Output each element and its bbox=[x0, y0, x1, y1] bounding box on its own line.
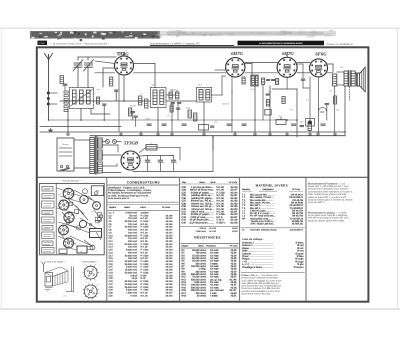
svg-text:0,5: 0,5 bbox=[306, 99, 309, 102]
svg-text:30.000 ohms750 ohms15.000 ohms: 30.000 ohms750 ohms15.000 ohms50.000 ohm… bbox=[191, 249, 207, 298]
part numbers bbox=[58, 189, 100, 253]
wire output transformer links bbox=[335, 72, 357, 132]
wire 6A8G top cap bbox=[117, 53, 124, 57]
resistor diode load bbox=[282, 97, 285, 104]
svg-text:Branchement de l’antenne. —: Branchement de l’antenne. — Lesprises AN… bbox=[307, 182, 353, 204]
svg-text:Puissance: Puissance bbox=[206, 245, 216, 248]
switch bank contacts bbox=[60, 76, 68, 112]
paper edge right bbox=[397, 28, 399, 309]
svg-text:— Avant, en coupe —: — Avant, en coupe — bbox=[43, 260, 67, 263]
svg-text:Prises « P.U. ». — Ces prises: Prises « P.U. ». — Ces prises sontprévue… bbox=[242, 274, 282, 295]
tube 6A8G bbox=[115, 52, 134, 76]
antenna bbox=[45, 54, 53, 60]
svg-text:8: 8 bbox=[151, 162, 152, 165]
svg-text:27: 27 bbox=[59, 199, 61, 202]
svg-text:5Y3GB: 5Y3GB bbox=[124, 140, 138, 146]
header: publication black bar bbox=[238, 41, 325, 46]
ground symbols along bus bbox=[66, 132, 336, 135]
wire 6H7G grid/plate bbox=[215, 64, 252, 76]
wire antenna lead bbox=[48, 60, 50, 121]
svg-text:DR 45.ML/1DR 45.BML/1DR 45.JWD: DR 45.ML/1DR 45.BML/1DR 45.JWDR 45.FA/BD… bbox=[289, 194, 304, 226]
svg-text:Nº Code: Nº Code bbox=[229, 181, 238, 184]
wire 6H7G cathode to bus bbox=[231, 77, 233, 133]
node antenna terminals A1 A2 T bbox=[47, 92, 57, 106]
svg-text:6: 6 bbox=[96, 249, 97, 252]
svg-text:0,1: 0,1 bbox=[279, 115, 282, 118]
column divider B/C bbox=[179, 177, 181, 301]
resistor osc feedback bbox=[129, 108, 132, 116]
wire 6A8G grid bbox=[95, 61, 115, 87]
svg-text:Croquis 14. SCHEMELS: Croquis 14. SCHEMELS bbox=[327, 43, 353, 46]
resistor 6F6G cathode bbox=[300, 77, 311, 132]
tube 6Q7G bbox=[277, 51, 297, 77]
svg-text:5000: 5000 bbox=[186, 107, 190, 110]
misc small parts clutter bbox=[66, 189, 103, 250]
svg-text:31: 31 bbox=[70, 194, 72, 197]
transformer power T bbox=[90, 137, 103, 175]
svg-text:38: 38 bbox=[92, 210, 94, 213]
socket V2 underside bbox=[59, 200, 69, 210]
rotary wafer 2 bbox=[81, 281, 101, 303]
components detector row (R,C,L) bbox=[242, 75, 279, 86]
svg-text:Code du câblage :: Code du câblage : bbox=[242, 238, 264, 241]
svg-text:l’ensemble, s/châssis, 68 pds: l’ensemble, s/châssis, 68 pds bbox=[250, 229, 277, 232]
svg-text:63.3863.38: 63.3863.38 bbox=[232, 227, 238, 233]
svg-text:25: 25 bbox=[110, 78, 112, 81]
wire 6F6G screen vertical bbox=[318, 77, 320, 132]
wire 6A8G cathode to bus bbox=[118, 74, 120, 132]
svg-text:50: 50 bbox=[231, 91, 233, 94]
svg-text:Bloc accord 450............Blo: Bloc accord 450............Bloc oscillat… bbox=[250, 194, 276, 226]
wire HT line bbox=[157, 147, 180, 160]
capacitor C screen bbox=[115, 90, 118, 101]
capacitor AVC bbox=[177, 107, 180, 109]
svg-text:MF2: MF2 bbox=[198, 84, 202, 87]
svg-text:Antennes 1 ...................: Antennes 1 .............................… bbox=[242, 241, 274, 268]
svg-text:8: 8 bbox=[164, 162, 165, 165]
svg-text:0,5 M: 0,5 M bbox=[250, 88, 255, 91]
svg-text:0,1: 0,1 bbox=[140, 93, 143, 96]
wire right return vertical bbox=[344, 86, 346, 136]
transformer output bbox=[344, 71, 355, 87]
svg-text:470: 470 bbox=[214, 121, 217, 124]
column divider C/D bbox=[239, 177, 241, 301]
svg-text:Pot.: Pot. bbox=[290, 109, 294, 112]
ground antenna circuit bbox=[50, 129, 52, 131]
svg-text:Valeur: Valeur bbox=[124, 206, 130, 209]
svg-text:Désignation: Désignation bbox=[263, 188, 275, 191]
resistor R cathode bbox=[145, 99, 148, 108]
resistor cluster below MF2 bbox=[188, 110, 214, 130]
svg-text:H.P.: H.P. bbox=[329, 90, 333, 93]
wire MF2 leads bbox=[204, 76, 226, 132]
svg-text:Superhétérodyne « CHAREL », Ma: Superhétérodyne « CHAREL », Majestic 475 bbox=[150, 42, 200, 45]
choke part bbox=[77, 246, 87, 253]
wire heater bus bbox=[95, 72, 333, 74]
coil block L1 L2 L3 (accord/oscillateur) bbox=[70, 88, 94, 109]
column divider A/B bbox=[106, 177, 108, 301]
svg-text:35: 35 bbox=[58, 193, 60, 196]
wire 6A8G cathode bbox=[123, 75, 125, 101]
svg-text:Repère: Repère bbox=[109, 206, 117, 209]
coil excitation field bbox=[333, 74, 337, 86]
svg-text:LA DOCUMENTATION DU RADIOMAN-R: LA DOCUMENTATION DU RADIOMAN-RADIO bbox=[259, 42, 303, 45]
svg-text:Lab.B: Lab.B bbox=[140, 206, 146, 209]
svg-text:e4 n 243 Tf 6A8G GH7 G2 a 6F 0: e4 n 243 Tf 6A8G GH7 G2 a 6F 0 G 14 43 bbox=[168, 33, 221, 37]
svg-text:Exc.: Exc. bbox=[340, 66, 344, 69]
resistor R osc grid bbox=[139, 96, 142, 105]
paper edge top bbox=[0, 27, 400, 29]
svg-text:— Vue de dessous —: — Vue de dessous — bbox=[59, 180, 83, 183]
resistor R ant coupling bbox=[97, 97, 100, 104]
svg-text:Rep.: Rep. bbox=[182, 181, 187, 184]
wire MF1 secondary bbox=[158, 95, 176, 132]
resistor cluster after MF1 bbox=[169, 90, 181, 132]
wire 6Q7G plate coupling bbox=[297, 64, 309, 88]
svg-text:(Cat.43.BMT/2: (Cat.43.BMT/2 bbox=[290, 229, 304, 232]
resistor R screen 6A8G bbox=[110, 77, 113, 86]
svg-text:Valeur: Valeur bbox=[199, 181, 205, 184]
transformer housing bbox=[90, 229, 102, 238]
svg-text:6F6G: 6F6G bbox=[315, 52, 327, 58]
tube 6F6G bbox=[310, 52, 328, 77]
wire to 6Q7G grid bbox=[272, 77, 297, 137]
svg-text:RÉSISTANCES: RÉSISTANCES bbox=[194, 235, 221, 239]
header: publisher block bbox=[38, 41, 108, 46]
tone control part bbox=[319, 108, 327, 112]
tube 6H7G bbox=[226, 51, 245, 77]
wire choke to bus vertical bbox=[212, 137, 214, 171]
electrolytic can bbox=[79, 220, 86, 227]
svg-text:1 M: 1 M bbox=[167, 115, 171, 118]
wire AVC bus bbox=[49, 119, 298, 121]
svg-text:40: 40 bbox=[96, 189, 98, 192]
svg-text:45: 45 bbox=[71, 203, 73, 206]
header: model name bbox=[150, 42, 234, 45]
svg-text:50.000: 50.000 bbox=[170, 89, 176, 92]
svg-text:35: 35 bbox=[65, 241, 67, 244]
wire plate line tube3-tube4 bbox=[297, 62, 310, 64]
switch mains bbox=[61, 169, 69, 172]
svg-text:20.000: 20.000 bbox=[130, 105, 136, 108]
MF can 1 bbox=[80, 195, 88, 203]
small part c bbox=[97, 217, 101, 221]
wire lower bus bbox=[90, 135, 345, 137]
socket V4 underside bbox=[59, 225, 69, 235]
svg-text:27: 27 bbox=[59, 213, 61, 216]
document border frame bbox=[37, 47, 369, 301]
wire rectifier heater bbox=[102, 155, 121, 166]
svg-text:43.24943.24143.24443.24643.244: 43.24943.24143.24443.24643.24443.24743.2… bbox=[165, 214, 173, 297]
svg-text:C32C33C34C35C36C37C38C39C40C41: C32C33C34C35C36C37C38C39C40C41C42C43C44C… bbox=[182, 186, 187, 224]
svg-text:18: 18 bbox=[73, 242, 75, 245]
svg-text:46: 46 bbox=[98, 222, 100, 225]
capacitor padder bbox=[63, 84, 67, 90]
paper edge bottom bbox=[0, 308, 400, 310]
wire plate line tube2-tube3 bbox=[245, 62, 277, 64]
wire ground bus bbox=[40, 131, 345, 133]
wire B+ line bbox=[60, 100, 196, 102]
value labels bbox=[97, 66, 344, 124]
wire 6Q7G top cap bbox=[286, 53, 288, 58]
svg-text:6H7G: 6H7G bbox=[231, 51, 243, 57]
wire detector verticals bbox=[255, 85, 270, 133]
capacitor C ant coupling bbox=[103, 104, 106, 120]
svg-text:Nº Code: Nº Code bbox=[230, 245, 239, 248]
wire rectifier cathode to choke bbox=[140, 147, 147, 152]
wire power ground line bbox=[133, 170, 213, 172]
MF can 2 bbox=[93, 202, 101, 210]
wire left low bus bbox=[40, 126, 121, 128]
svg-text:Repères: Repères bbox=[242, 188, 250, 191]
wire gang to coils bbox=[78, 57, 116, 88]
paper edge left bbox=[0, 28, 2, 309]
junction dots bbox=[48, 100, 346, 138]
small part b bbox=[90, 245, 95, 250]
tuning gang outline Tg bbox=[91, 186, 103, 196]
svg-text:Repère: Repère bbox=[182, 245, 190, 248]
resistor tone bbox=[334, 96, 337, 104]
capacitor bus decouplers bbox=[147, 124, 325, 125]
lamp dial pilots bbox=[102, 140, 121, 144]
capacitor electrolytic cathode (dark blob) bbox=[306, 119, 315, 127]
capacitor C det bbox=[265, 94, 271, 115]
value labels row2 bbox=[130, 91, 339, 121]
svg-text:MF1: MF1 bbox=[152, 84, 156, 87]
svg-text:400: 400 bbox=[336, 109, 339, 112]
choke filter R bbox=[146, 141, 157, 150]
svg-text:C.R.E.: C.R.E. bbox=[39, 42, 45, 45]
svg-text:100.000: 100.000 bbox=[222, 103, 229, 106]
svg-text:Secteur: Secteur bbox=[62, 143, 69, 146]
socket V1 underside bbox=[63, 188, 74, 199]
svg-text:4 pF mica au titane....460 pF: 4 pF mica au titane....460 pF (6 %) au m… bbox=[190, 186, 215, 224]
svg-text:20: 20 bbox=[80, 250, 82, 253]
svg-text:Ta.: Ta. bbox=[242, 229, 245, 232]
svg-text:Nº Code: Nº Code bbox=[292, 188, 301, 191]
svg-text:Nº Code: Nº Code bbox=[162, 206, 171, 209]
svg-text:osc: osc bbox=[97, 88, 100, 91]
terminal strip sub-panel bbox=[42, 183, 57, 254]
wire 6A8G plate to MF1 bbox=[134, 64, 156, 88]
svg-text:10: 10 bbox=[73, 190, 75, 193]
svg-text:MATÉRIEL DIVERS: MATÉRIEL DIVERS bbox=[256, 183, 288, 187]
wire 6F6G plate to output bbox=[328, 64, 334, 72]
speaker bbox=[357, 67, 366, 92]
svg-text:43.0643.0443.0543.0643.0643.02: 43.0643.0443.0543.0643.0643.0243.0743.09… bbox=[229, 249, 237, 298]
scan smudge artifact top-left bbox=[30, 30, 336, 41]
potentiometer volume bbox=[276, 117, 286, 125]
svg-text:CONDENSATEURS: CONDENSATEURS bbox=[127, 180, 161, 184]
capacitor CV tuning gang bbox=[73, 60, 94, 72]
svg-text:47: 47 bbox=[150, 141, 152, 144]
tube 5Y3GB bbox=[121, 140, 140, 170]
wire coil block to ground bus bbox=[68, 109, 110, 133]
svg-text:— Commutateur —: — Commutateur — bbox=[78, 260, 99, 263]
svg-text:M 1.00M 1.00: M 1.00M 1.00 bbox=[210, 227, 217, 233]
wire transformer HT taps bbox=[102, 145, 147, 173]
svg-text:Lab.B: Lab.B bbox=[210, 181, 216, 184]
capacitor filter electrolytics C24 bbox=[145, 156, 178, 172]
mains input box (secteur) bbox=[57, 138, 74, 171]
transformer MF2 bbox=[197, 88, 212, 103]
svg-text:37: 37 bbox=[87, 227, 89, 230]
capacitor C osc bbox=[131, 112, 135, 121]
chassis underside box bbox=[40, 183, 105, 254]
svg-text:5.000: 5.000 bbox=[145, 118, 150, 121]
wire bus stub x213 bbox=[212, 136, 214, 150]
chassis 3D sketch bbox=[42, 262, 75, 298]
capacitor osc pad bbox=[134, 116, 137, 127]
rotary wafer 1 bbox=[81, 263, 101, 283]
small part a bbox=[59, 249, 67, 254]
wiring crisscross bbox=[57, 188, 101, 250]
transformer MF1 bbox=[151, 88, 167, 108]
separator rule schematic/tables bbox=[38, 176, 369, 178]
svg-text:47: 47 bbox=[46, 290, 48, 293]
wire secteur to transformer bbox=[74, 140, 90, 168]
socket V5 underside bbox=[64, 238, 74, 248]
resistor AVC filter bbox=[170, 105, 173, 112]
svg-text:Branchement du pickup. — Le: Branchement du pickup. — Le pick-up est … bbox=[308, 211, 349, 222]
svg-text:43.24043.24743.24443.25143.252: 43.24043.24743.24443.25143.25243.25343.2… bbox=[230, 186, 238, 224]
socket V3 underside bbox=[64, 212, 74, 222]
svg-text:250: 250 bbox=[300, 121, 303, 124]
svg-text:Valeur: Valeur bbox=[198, 245, 204, 248]
capacitor tone bbox=[325, 104, 329, 121]
column divider D/E bbox=[305, 177, 307, 301]
svg-text:— 18, Boulevard Voltaire (11ᵉ): — 18, Boulevard Voltaire (11ᵉ) — Reprodu… bbox=[50, 42, 108, 45]
svg-text:6Q7G: 6Q7G bbox=[282, 51, 294, 57]
svg-text:100: 100 bbox=[268, 91, 271, 94]
